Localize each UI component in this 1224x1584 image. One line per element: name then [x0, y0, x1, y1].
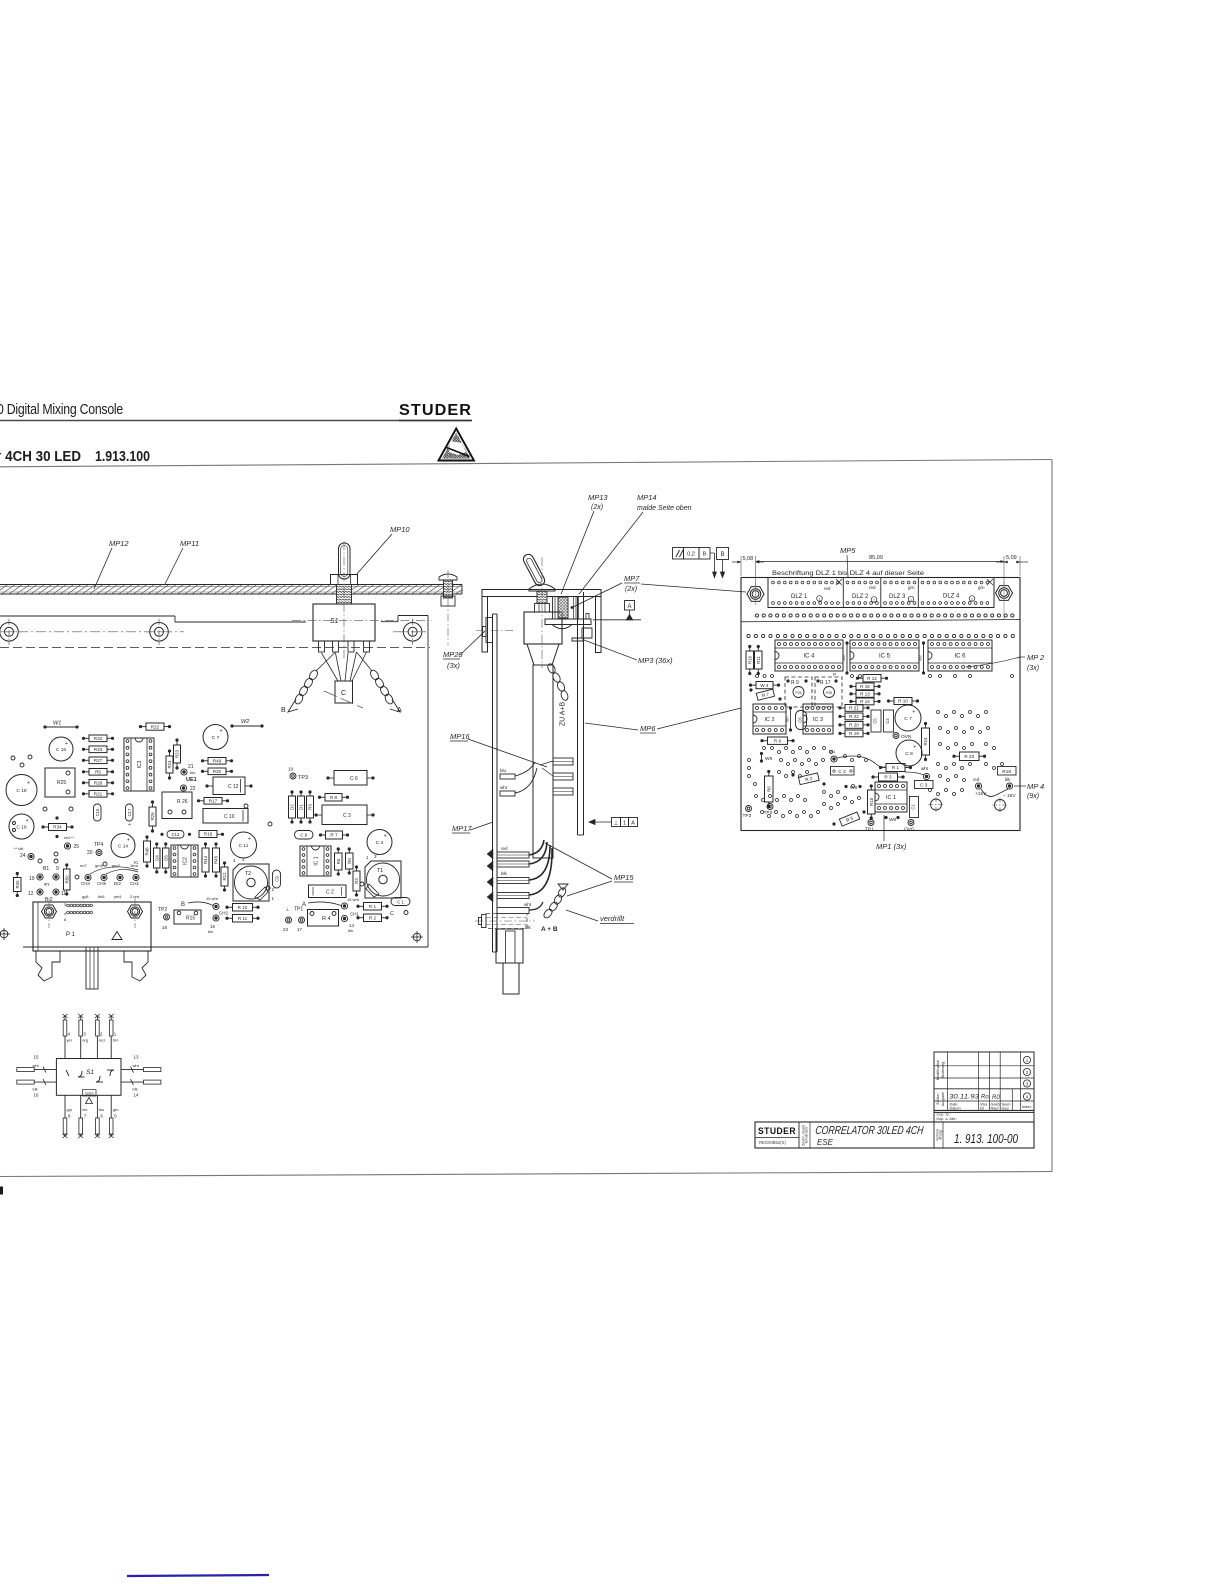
- capacitor C6: [334, 771, 367, 786]
- svg-text:C 2: C 2: [838, 769, 846, 775]
- svg-text:– 15V: – 15V: [1003, 793, 1016, 799]
- svg-text:(2x): (2x): [625, 586, 637, 593]
- svg-text:R 22: R 22: [849, 714, 859, 719]
- bracket left flange: [482, 597, 488, 653]
- resistor R5: [89, 769, 107, 776]
- svg-text:R17: R17: [209, 799, 218, 804]
- svg-text:yel4: yel4: [114, 894, 122, 899]
- svg-text:(3x): (3x): [447, 661, 460, 670]
- capacitor C14: [111, 834, 135, 858]
- resistor R32: [89, 735, 107, 742]
- svg-text:R 1: R 1: [369, 904, 377, 909]
- wire ledges lower red blk: [497, 852, 529, 858]
- solder wedges: [487, 849, 493, 859]
- revision circled numbers: [1023, 1056, 1030, 1063]
- capacitor C15: [49, 737, 73, 761]
- svg-text:MP 4: MP 4: [1027, 782, 1044, 791]
- S1 schematic left leads: [17, 1069, 57, 1071]
- svg-text:C5: C5: [873, 718, 878, 724]
- svg-text:MP7: MP7: [624, 574, 640, 583]
- right pcb outline: [741, 578, 1020, 831]
- P1 right prong: [124, 951, 148, 981]
- P1 center tongue: [86, 947, 98, 989]
- capacitor C1 vertical right: [910, 797, 919, 818]
- svg-text:R24: R24: [167, 760, 172, 769]
- svg-text:R36: R36: [15, 880, 20, 889]
- resistor R21: [89, 791, 107, 798]
- resistor R23 right: [960, 752, 980, 761]
- resistor R36 vertical: [14, 878, 22, 892]
- resistor R19: [199, 831, 217, 838]
- svg-text:C1: C1: [911, 804, 916, 810]
- svg-text:UE1: UE1: [186, 777, 197, 783]
- svg-text:1: 1: [971, 597, 973, 601]
- svg-text:Ro: Ro: [981, 1095, 989, 1101]
- svg-text:MP3 (36x): MP3 (36x): [638, 656, 673, 665]
- svg-text:R9: R9: [308, 804, 313, 810]
- S1 schematic contacts: [78, 1071, 82, 1077]
- capacitor C8 right: [896, 740, 922, 766]
- svg-text:red: red: [99, 1038, 105, 1043]
- svg-text:R48: R48: [145, 847, 150, 856]
- jumper W9: [760, 752, 763, 755]
- svg-text:18: 18: [162, 925, 168, 930]
- capacitor C7: [203, 725, 228, 750]
- resistor R50 vertical: [64, 869, 71, 890]
- svg-text:R25: R25: [57, 780, 66, 786]
- svg-text:30.11.93: 30.11.93: [949, 1094, 979, 1101]
- svg-text:W9: W9: [765, 756, 773, 762]
- connector C box: [335, 681, 353, 703]
- svg-text:23: 23: [283, 927, 289, 932]
- svg-text:20: 20: [87, 850, 93, 856]
- svg-text:R50: R50: [64, 875, 69, 884]
- svg-text:vio: vio: [82, 1107, 88, 1112]
- resistor R2b: [364, 914, 382, 922]
- svg-text:red: red: [824, 586, 831, 591]
- svg-text:(3x): (3x): [1027, 665, 1039, 672]
- svg-text:R32: R32: [94, 736, 103, 741]
- P1 hex standoff left: [42, 905, 57, 918]
- IC1 dip left board: [300, 846, 331, 876]
- svg-text:IC 5: IC 5: [879, 654, 891, 660]
- svg-text:R6: R6: [347, 858, 352, 864]
- top flange MP20: [486, 618, 493, 643]
- svg-text:R 10: R 10: [238, 905, 248, 910]
- svg-text:C 14: C 14: [118, 843, 128, 849]
- svg-text:12: 12: [28, 891, 34, 897]
- pad OVN: [893, 733, 899, 739]
- svg-text:15: 15: [34, 1055, 40, 1060]
- svg-text:D4: D4: [154, 855, 159, 861]
- svg-text:+: +: [220, 729, 223, 735]
- svg-text:C: C: [341, 690, 346, 697]
- revision table: [934, 1052, 1034, 1112]
- jumper W8: [844, 785, 847, 788]
- resistor R9 vertical: [307, 796, 314, 818]
- S1 schematic bottom pins: [64, 1095, 66, 1136]
- resistor R10: [233, 904, 253, 912]
- diode D1 vertical: [298, 796, 305, 818]
- svg-text:P: P: [833, 672, 836, 677]
- column bottom plug: [503, 963, 519, 994]
- datum flag L1A: [612, 818, 621, 827]
- bracket top plate: [482, 590, 601, 597]
- svg-text:R0: R0: [992, 1095, 1000, 1101]
- svg-text:C4: C4: [885, 718, 890, 724]
- svg-text:16: 16: [34, 1093, 40, 1098]
- hex standoff right: [996, 586, 1013, 601]
- svg-text:Datum: Datum: [950, 1107, 961, 1111]
- svg-text:org: org: [82, 1038, 88, 1043]
- capacitor C4: [367, 830, 392, 855]
- svg-text:grn: grn: [908, 585, 915, 590]
- svg-text:R 12: R 12: [867, 676, 877, 681]
- svg-text:A: A: [627, 604, 631, 610]
- svg-text:B1: B1: [43, 866, 49, 872]
- LED pcb support bar: [545, 619, 591, 625]
- svg-text:17: 17: [297, 927, 303, 932]
- svg-text:C 18: C 18: [16, 788, 26, 794]
- svg-text:MP13: MP13: [588, 493, 608, 502]
- svg-text:C13: C13: [172, 832, 180, 837]
- svg-text:A: A: [397, 707, 402, 714]
- svg-text:R20: R20: [213, 769, 222, 774]
- capacitor C3: [322, 805, 367, 825]
- test point TP2 right: [767, 804, 773, 810]
- switch neck taper: [527, 644, 559, 665]
- svg-text:DLZ 3: DLZ 3: [889, 594, 906, 600]
- svg-text:red: red: [973, 777, 980, 782]
- capacitor C2 box: [309, 885, 347, 898]
- resistor R10b right: [894, 698, 912, 705]
- svg-text:C16: C16: [95, 808, 100, 816]
- svg-text:14: 14: [134, 1093, 140, 1098]
- resistor R15 vertical right: [868, 790, 876, 814]
- svg-text:P 1: P 1: [66, 932, 76, 938]
- transistor T2: [233, 864, 269, 901]
- svg-text:A + B: A + B: [541, 926, 558, 933]
- dash-dot centerline through holes: [0, 631, 184, 633]
- ESD warning triangle: [439, 429, 475, 461]
- svg-text:MP11: MP11: [180, 539, 199, 548]
- svg-text:no7: no7: [80, 863, 87, 868]
- pad OVG: [908, 820, 914, 826]
- svg-text:MP14: MP14: [637, 493, 657, 502]
- svg-text:IC 4: IC 4: [803, 654, 815, 660]
- switch centerline: [541, 557, 543, 668]
- svg-text:+: +: [27, 781, 30, 787]
- svg-text:R19: R19: [204, 832, 213, 837]
- svg-text:verdrillt: verdrillt: [600, 914, 625, 923]
- resistor R1: [364, 903, 382, 911]
- resistor R25 vertical: [149, 807, 156, 826]
- hex standoff left: [747, 587, 764, 602]
- capacitor C9 vertical pill: [273, 870, 281, 888]
- svg-text:wht: wht: [133, 1063, 140, 1068]
- svg-text:S1: S1: [330, 618, 339, 625]
- resistor R26 block: [162, 792, 192, 819]
- svg-text:R 16: R 16: [860, 684, 870, 689]
- misc vias left pcb: [11, 756, 15, 760]
- P1 polarity triangle: [112, 932, 122, 940]
- trimmer R9: [785, 677, 812, 707]
- svg-text:R 7: R 7: [330, 833, 338, 838]
- svg-text:P25: P25: [826, 691, 832, 695]
- svg-text:+: +: [384, 834, 387, 840]
- svg-text:IC 6: IC 6: [954, 654, 966, 660]
- svg-text:blk: blk: [348, 928, 353, 933]
- right bracket step: [572, 628, 592, 641]
- trimmer R17: [815, 677, 842, 707]
- svg-text:+: +: [248, 836, 251, 842]
- label box R18: [998, 767, 1017, 776]
- svg-text:W1: W1: [841, 654, 846, 661]
- svg-text:R49: R49: [213, 759, 222, 764]
- resistor R20: [208, 768, 226, 775]
- svg-text:MP6: MP6: [640, 724, 656, 733]
- capacitor C7 right: [895, 705, 921, 731]
- display DLZ 3: [917, 578, 919, 608]
- svg-text:DLZ 4: DLZ 4: [943, 594, 960, 600]
- cable sleeve column: [533, 665, 553, 858]
- svg-text:W2: W2: [241, 719, 249, 725]
- svg-text:MP17: MP17: [452, 824, 472, 833]
- resistor R8 right: [768, 737, 788, 744]
- svg-text:blk: blk: [1005, 777, 1011, 782]
- svg-text:IC 3: IC 3: [813, 717, 823, 723]
- LED holder stack: [552, 597, 554, 619]
- dimension 5,08: [740, 556, 742, 576]
- svg-text:W7: W7: [786, 716, 790, 722]
- sparse pad row below ICs: [756, 675, 759, 678]
- jumper W4: [756, 682, 773, 689]
- svg-text:Cop. to:: Cop. to:: [937, 1113, 950, 1117]
- svg-text:1: 1: [819, 597, 821, 601]
- parallelism tolerance frame: [673, 548, 684, 560]
- test point TP1 right: [868, 820, 874, 826]
- toggle switch S1 bushing: [337, 585, 352, 605]
- bracket right flange: [596, 597, 602, 653]
- svg-text:blk: blk: [525, 925, 532, 930]
- svg-text:R27: R27: [94, 758, 103, 763]
- drawing frame bottom border: [0, 1172, 1052, 1177]
- thick wires to column: [529, 840, 544, 855]
- IC2 dip right: [753, 704, 786, 734]
- resistor R8b: [325, 794, 342, 802]
- resistor R49: [208, 758, 226, 765]
- svg-text:15 wht: 15 wht: [206, 896, 219, 901]
- svg-text:R45: R45: [214, 855, 219, 864]
- svg-text:W6: W6: [889, 817, 897, 823]
- twisted pair to B: [308, 669, 319, 681]
- svg-text:R5: R5: [336, 858, 341, 864]
- svg-text:10: 10: [29, 876, 35, 882]
- svg-text:W2: W2: [918, 654, 923, 661]
- svg-text:wht: wht: [524, 902, 532, 907]
- svg-text:B: B: [181, 902, 185, 908]
- svg-text:19: 19: [288, 767, 294, 772]
- resistor R16 right: [856, 683, 874, 690]
- svg-text:R 11: R 11: [238, 916, 248, 921]
- svg-text:brn: brn: [113, 1038, 119, 1043]
- svg-text:9: 9: [56, 866, 59, 872]
- capacitor C18: [6, 775, 37, 806]
- svg-text:R34: R34: [53, 825, 62, 830]
- resistor R14 right: [856, 698, 874, 705]
- jumper W1 vertical right board: [845, 641, 848, 644]
- resistor R7b: [326, 831, 343, 839]
- svg-text:B: B: [281, 707, 286, 714]
- svg-text:IC 2: IC 2: [764, 717, 774, 723]
- capacitor C3 right: [915, 781, 934, 789]
- svg-text:0,2: 0,2: [687, 552, 695, 558]
- svg-text:grn: grn: [978, 585, 985, 590]
- resistor R7 right: [756, 689, 774, 700]
- svg-text:gry: gry: [67, 1107, 73, 1112]
- svg-text:1: 1: [623, 821, 626, 827]
- svg-text:25: 25: [74, 844, 80, 850]
- front panel extrusion (hatched bar) MP11/MP12: [0, 585, 462, 595]
- svg-text:R10: R10: [747, 655, 752, 664]
- left small ledges blu wht: [500, 774, 515, 779]
- svg-text:R23: R23: [175, 749, 180, 758]
- resistor R15 block: [174, 910, 201, 924]
- svg-text:+: +: [65, 741, 68, 747]
- svg-text:R 9: R 9: [791, 680, 799, 686]
- S1 pins: [319, 641, 325, 652]
- svg-text:1.913.100: 1.913.100: [95, 449, 150, 465]
- transistor T1: [365, 861, 401, 898]
- svg-text:+: +: [127, 837, 130, 843]
- svg-text:R 14: R 14: [860, 699, 870, 704]
- column lower step: [496, 929, 523, 963]
- left pcb corner fiducial bottom-left: [0, 930, 8, 938]
- footer navy rule: [127, 1575, 269, 1576]
- svg-text:R 13: R 13: [860, 692, 870, 697]
- jumper W2 vertical right board: [922, 641, 925, 644]
- trimmer R25 square: [45, 768, 75, 797]
- svg-text:T1: T1: [377, 868, 383, 874]
- svg-text:1: 1: [873, 598, 875, 602]
- resistor R5 right tilted: [839, 812, 859, 826]
- svg-text:C 8: C 8: [905, 751, 913, 757]
- svg-text:⊥: ⊥: [614, 820, 619, 827]
- svg-text:DI2: DI2: [114, 881, 122, 886]
- svg-text:Änderung: Änderung: [941, 1062, 945, 1078]
- svg-text:wht: wht: [921, 766, 929, 771]
- svg-text:C 7: C 7: [904, 716, 912, 722]
- svg-text:IC3: IC3: [137, 760, 143, 768]
- resistor R33: [89, 746, 107, 753]
- resistor R3 right: [879, 773, 898, 781]
- svg-text:notch: notch: [85, 1092, 94, 1096]
- switch S1 schematic body: [56, 1059, 121, 1096]
- DLZ display frame: [768, 578, 994, 608]
- resistor R23 vertical: [174, 745, 181, 763]
- resistor R3v vertical: [353, 871, 360, 891]
- jumper W2: [230, 724, 233, 727]
- jumper W1: [43, 725, 46, 728]
- resistor R12 vertical: [221, 867, 228, 886]
- svg-text:T2: T2: [245, 871, 251, 877]
- display DLZ 1: [842, 578, 844, 608]
- left vertical bar (panel edge): [492, 614, 494, 952]
- capacitor C17 vertical: [126, 804, 134, 821]
- svg-text:R3: R3: [354, 878, 359, 884]
- svg-text:(9x): (9x): [1027, 793, 1039, 800]
- svg-text:D2: D2: [290, 804, 295, 810]
- toggle switch S1 lever: [339, 543, 351, 579]
- svg-text:R 26: R 26: [177, 799, 188, 805]
- svg-text:IC 1: IC 1: [313, 856, 319, 865]
- svg-text:OVN: OVN: [901, 734, 912, 740]
- mounting hole middle: [150, 623, 169, 642]
- resistor R12 right: [863, 675, 881, 682]
- resistor R44 vertical: [202, 848, 209, 872]
- svg-text:+: +: [913, 744, 916, 750]
- S1 wire fan to connector C: [322, 653, 339, 681]
- svg-text:R12: R12: [222, 872, 227, 881]
- svg-text:malde Seite oben: malde Seite oben: [637, 505, 692, 512]
- switch body (section): [524, 612, 562, 644]
- svg-text:P25: P25: [795, 691, 801, 695]
- IC4 dip: [775, 640, 843, 671]
- svg-text:R 1: R 1: [892, 765, 900, 770]
- switch dome seat: [529, 584, 555, 591]
- toggle switch S1 body: [313, 604, 375, 641]
- svg-text:MP1 (3x): MP1 (3x): [876, 842, 907, 851]
- resistor R11 vertical right: [755, 651, 763, 669]
- svg-text:MP15: MP15: [614, 873, 634, 882]
- P1 left prong: [36, 951, 60, 981]
- svg-text:grn5: grn5: [95, 863, 104, 868]
- resistor R11: [233, 915, 253, 923]
- svg-text:1. 913. 100-00: 1. 913. 100-00: [954, 1132, 1018, 1146]
- S1 schematic right leads: [121, 1069, 159, 1071]
- capacitor C13 pill: [167, 831, 184, 839]
- svg-text:IC2: IC2: [182, 857, 188, 865]
- svg-text:C 12: C 12: [228, 784, 239, 790]
- capacitor C16 vertical: [94, 804, 102, 821]
- svg-text:TP4: TP4: [94, 842, 103, 848]
- IC1 dip right: [875, 782, 907, 812]
- svg-text:CH4: CH4: [81, 881, 90, 886]
- toggle switch lever (section): [522, 553, 547, 588]
- panel lower edge line: [741, 620, 1020, 622]
- svg-text:CH1: CH1: [350, 912, 359, 917]
- svg-text:15 wht: 15 wht: [347, 897, 360, 902]
- svg-text:C 19: C 19: [16, 824, 26, 830]
- jumper W6: [884, 816, 887, 819]
- panel screw MP10 area right: [439, 574, 457, 580]
- svg-text:B: B: [703, 552, 707, 558]
- svg-text:R 17: R 17: [820, 680, 831, 686]
- svg-text:R25: R25: [150, 812, 155, 821]
- svg-text:2 red: 2 red: [130, 894, 139, 899]
- svg-text:A: A: [631, 821, 635, 827]
- svg-text:C 2: C 2: [326, 890, 334, 896]
- resistor R28: [89, 780, 107, 787]
- wires from left ledges: [515, 762, 535, 776]
- svg-text:bk6: bk6: [98, 894, 105, 899]
- STUDER logo underline: [399, 420, 472, 422]
- svg-text:C6: C6: [798, 717, 803, 723]
- svg-text:IC: IC: [134, 860, 139, 865]
- svg-text:MP12: MP12: [109, 539, 129, 548]
- drawing frame top border: [0, 460, 1052, 467]
- dimension 85,09: [756, 561, 1004, 563]
